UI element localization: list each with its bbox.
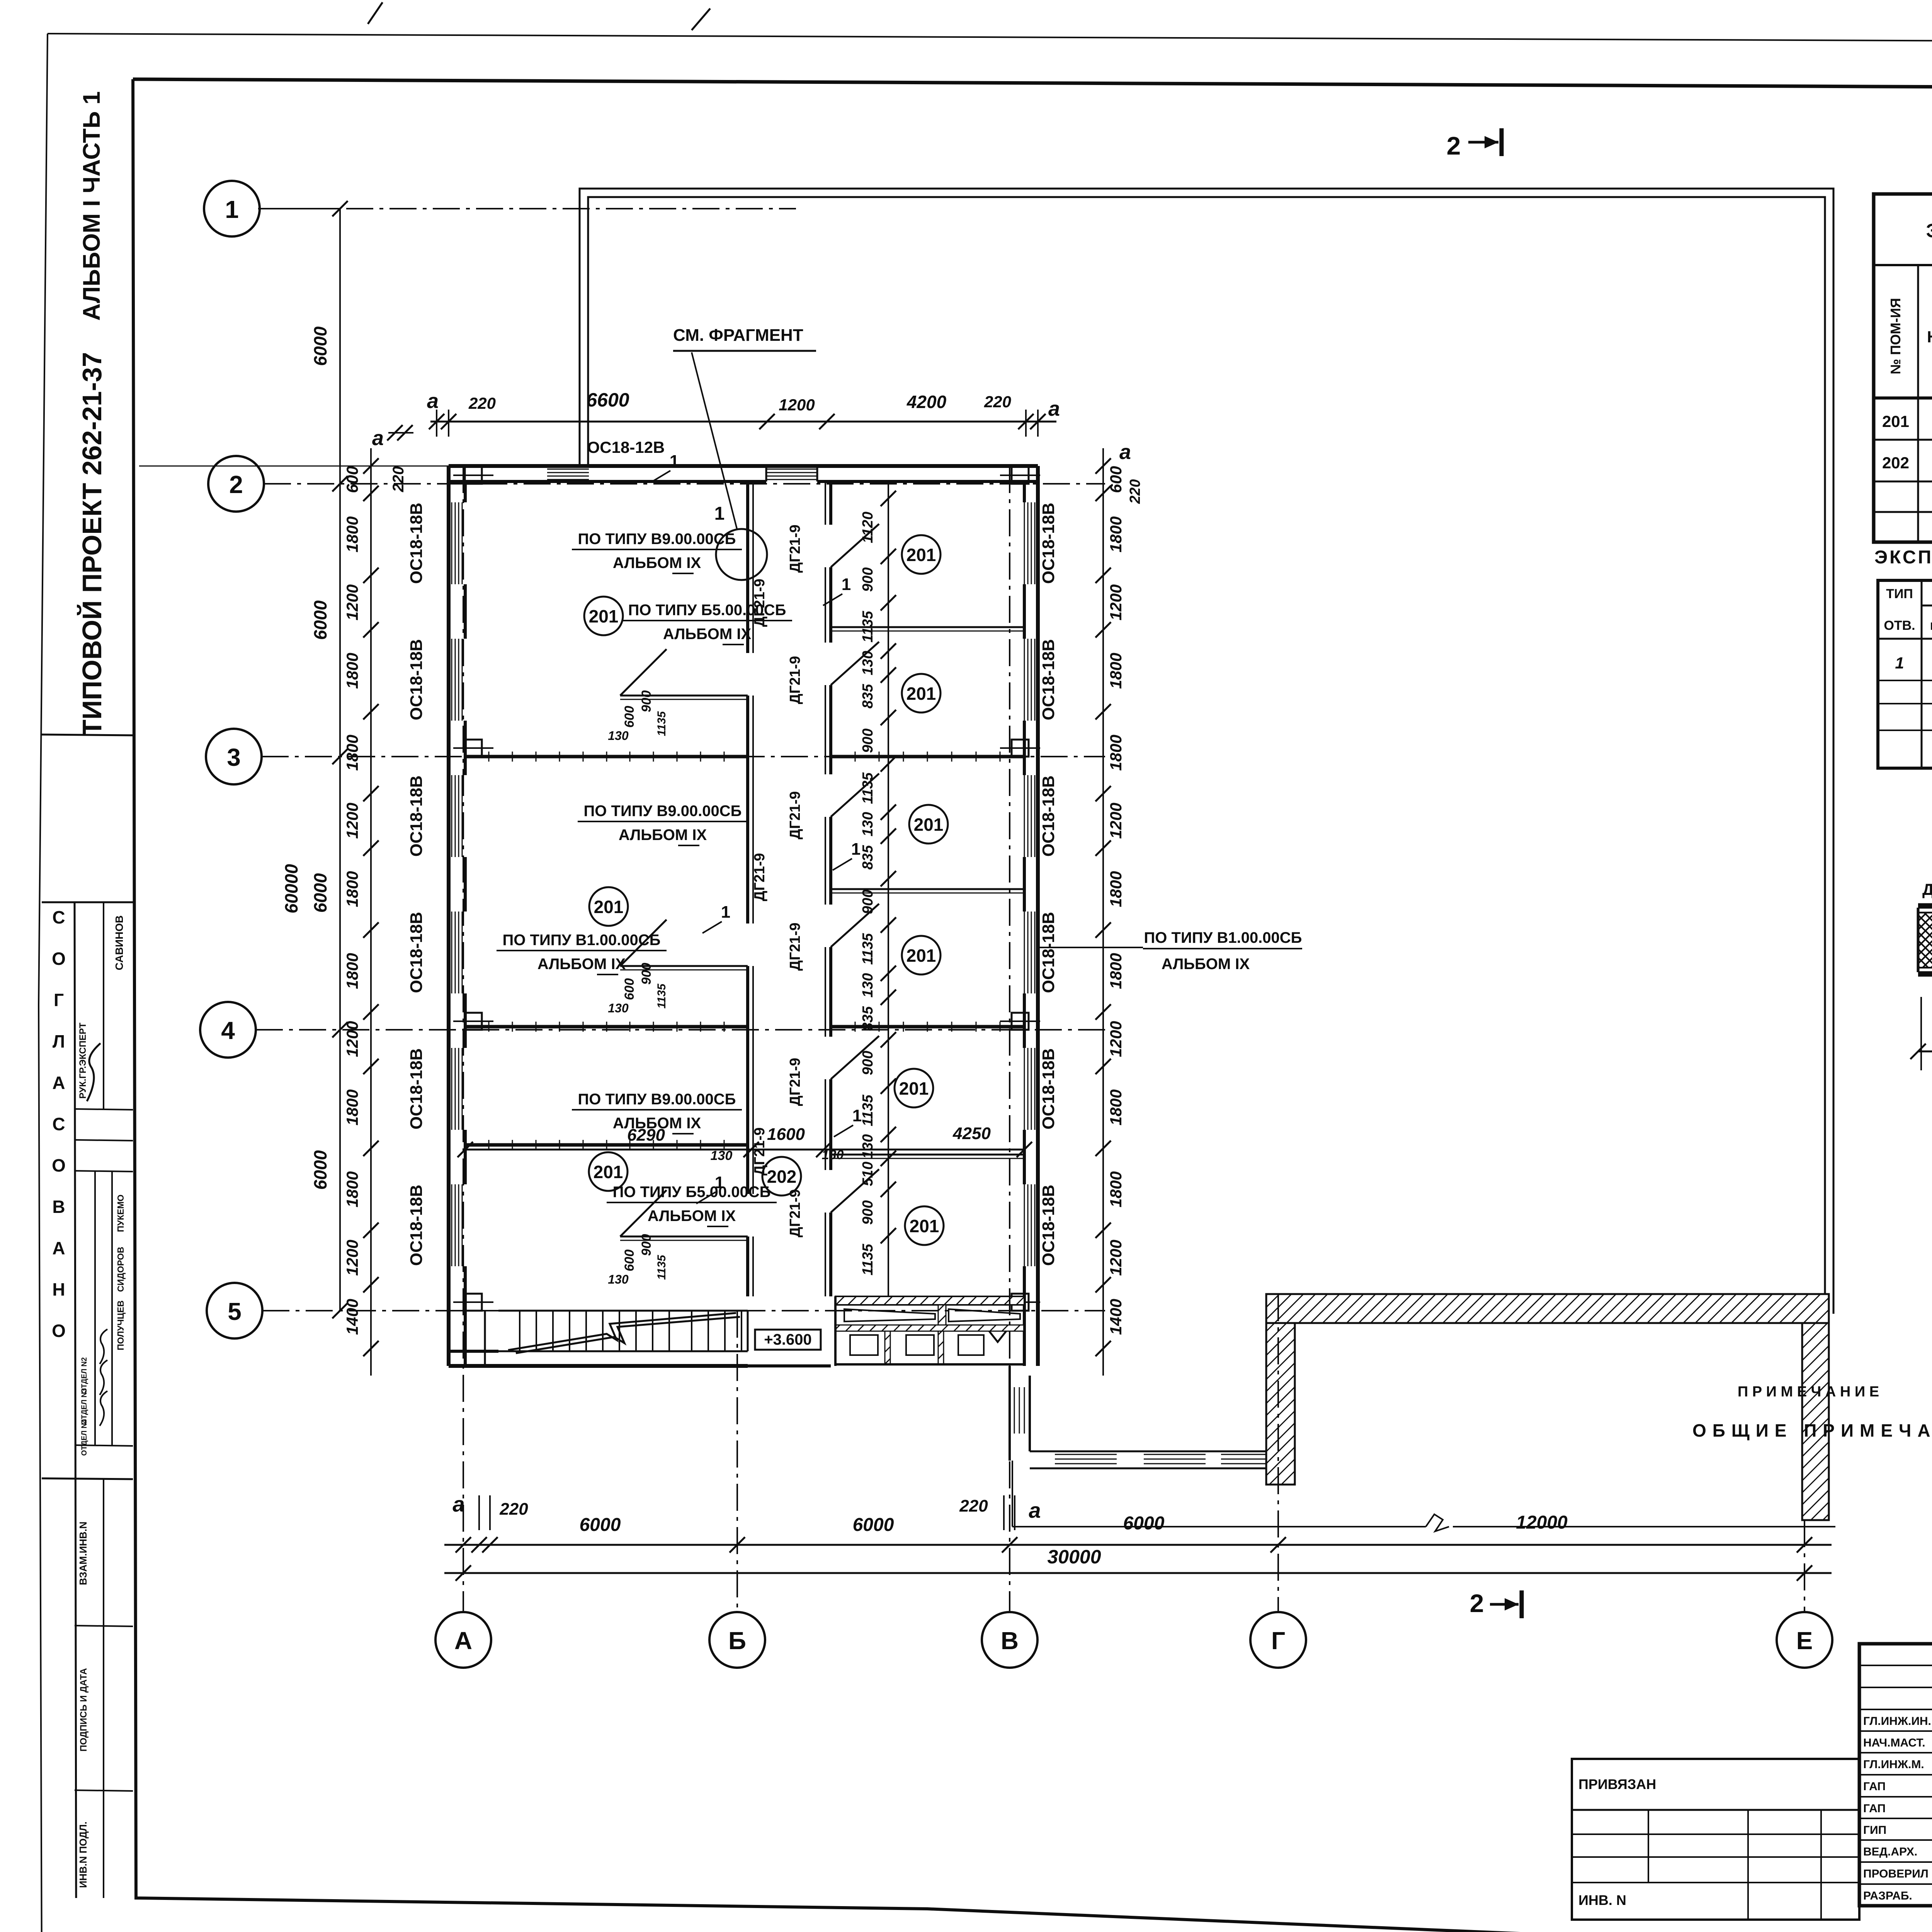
svg-text:130: 130 <box>711 1148 733 1163</box>
room 201 <box>895 1069 933 1107</box>
wing wall B-Г with windows <box>1030 1451 1282 1452</box>
svg-text:1200: 1200 <box>343 803 361 838</box>
svg-text:202: 202 <box>767 1167 797 1187</box>
svg-text:202: 202 <box>1882 454 1909 472</box>
svg-text:201: 201 <box>906 545 936 565</box>
svg-text:201: 201 <box>1882 412 1909 430</box>
axis circle 5 <box>207 1283 262 1338</box>
svg-text:ПРОВЕРИЛ: ПРОВЕРИЛ <box>1863 1867 1929 1880</box>
svg-text:ДГ21-9: ДГ21-9 <box>787 923 803 971</box>
svg-text:ПРИВЯЗАН: ПРИВЯЗАН <box>1578 1776 1656 1792</box>
sidebar approval table <box>42 901 133 903</box>
svg-text:НАЧ.МАСТ.: НАЧ.МАСТ. <box>1863 1736 1925 1749</box>
svg-text:1: 1 <box>670 452 679 471</box>
svg-text:О: О <box>52 1321 66 1341</box>
svg-text:ОС18-18В: ОС18-18В <box>407 639 426 720</box>
svg-text:1: 1 <box>225 196 239 223</box>
svg-text:130: 130 <box>860 812 876 836</box>
svg-text:О: О <box>52 1155 66 1175</box>
room 201 <box>589 1152 628 1191</box>
svg-text:ПОЛУЧЦЕВ: ПОЛУЧЦЕВ <box>116 1300 126 1350</box>
svg-text:ОС18-18В: ОС18-18В <box>407 776 426 857</box>
svg-text:ИНВ.N ПОДЛ.: ИНВ.N ПОДЛ. <box>77 1821 89 1888</box>
svg-text:1400: 1400 <box>1107 1299 1125 1335</box>
axis circle 2 <box>208 456 264 512</box>
svg-text:ДГ21-9: ДГ21-9 <box>787 791 803 840</box>
svg-text:Е: Е <box>1796 1627 1813 1655</box>
room 201 <box>902 535 940 574</box>
svg-text:4250: 4250 <box>952 1124 991 1143</box>
axis circle Г <box>1250 1612 1306 1668</box>
svg-text:835: 835 <box>860 684 876 708</box>
svg-text:ДГ21-9: ДГ21-9 <box>787 656 803 704</box>
outer wall: top <box>449 464 1038 468</box>
svg-text:ПО ТИПУ Б5.00.00СБ: ПО ТИПУ Б5.00.00СБ <box>613 1184 771 1201</box>
svg-text:1135: 1135 <box>860 1094 876 1126</box>
svg-text:ОС18-18В: ОС18-18В <box>1039 1048 1058 1129</box>
svg-text:ДГ21-9: ДГ21-9 <box>787 1058 803 1106</box>
room 201 <box>909 805 948 844</box>
svg-text:1: 1 <box>1895 654 1904 672</box>
sidebar lower block <box>42 1478 133 1479</box>
svg-text:ПО ТИПУ В9.00.00СБ: ПО ТИПУ В9.00.00СБ <box>578 531 736 548</box>
room 202 <box>762 1157 801 1196</box>
svg-text:ЭКСПЛИКАЦИЯ ПОМЕЩЕНИЙ И ИХ: ЭКСПЛИКАЦИЯ ПОМЕЩЕНИЙ И ИХ ОТДЕЛКА /НА О… <box>1926 219 1932 241</box>
svg-text:ПОДПИСЬ И ДАТА: ПОДПИСЬ И ДАТА <box>78 1668 89 1752</box>
svg-text:6000: 6000 <box>1123 1513 1165 1534</box>
svg-text:4: 4 <box>221 1017 235 1044</box>
svg-text:РУК.ГР.ЭКСПЕРТ: РУК.ГР.ЭКСПЕРТ <box>78 1022 88 1099</box>
svg-text:С: С <box>52 907 65 927</box>
svg-text:2: 2 <box>229 471 243 498</box>
svg-text:1135: 1135 <box>655 983 668 1009</box>
corridor walls <box>746 481 749 653</box>
svg-text:600: 600 <box>343 466 361 493</box>
interior wall on axis 4 <box>465 1025 748 1029</box>
svg-text:1120: 1120 <box>860 512 876 543</box>
svg-text:4200: 4200 <box>906 392 947 412</box>
svg-text:ОС18-18В: ОС18-18В <box>407 912 426 993</box>
sanitary block <box>835 1296 1024 1305</box>
axis circle Б <box>709 1612 765 1668</box>
svg-text:130: 130 <box>860 651 876 675</box>
svg-text:ПО ТИПУ В1.00.00СБ: ПО ТИПУ В1.00.00СБ <box>503 932 661 949</box>
svg-text:1800: 1800 <box>1107 516 1125 552</box>
room 201 <box>902 674 940 713</box>
svg-text:ДГ21-9: ДГ21-9 <box>787 1189 803 1238</box>
room 201 <box>905 1206 944 1245</box>
svg-text:6290: 6290 <box>627 1126 665 1145</box>
svg-text:900: 900 <box>860 1051 876 1075</box>
svg-text:3: 3 <box>227 743 241 771</box>
svg-text:1200: 1200 <box>779 396 815 414</box>
svg-text:ИНВ. N: ИНВ. N <box>1578 1892 1626 1908</box>
svg-text:1200: 1200 <box>1107 1021 1125 1057</box>
svg-text:130: 130 <box>608 1272 629 1286</box>
svg-text:201: 201 <box>914 815 944 835</box>
svg-text:a: a <box>427 389 439 413</box>
svg-text:ОС18-18В: ОС18-18В <box>1039 1185 1058 1266</box>
adjacent block outline (thin double rectangle) <box>580 189 1833 1314</box>
svg-text:ОС18-18В: ОС18-18В <box>1039 776 1058 857</box>
right type label with leader <box>1038 947 1143 948</box>
svg-text:+3.600: +3.600 <box>764 1331 811 1348</box>
svg-text:1135: 1135 <box>655 1254 668 1280</box>
svg-text:ТИПОВОЙ ПРОЕКТ 262-21-37: ТИПОВОЙ ПРОЕКТ 262-21-37 <box>77 352 107 736</box>
svg-text:510: 510 <box>860 1162 876 1186</box>
window ОС18-12В in top wall <box>547 469 589 470</box>
svg-text:ВЗАМ.ИНВ.N: ВЗАМ.ИНВ.N <box>77 1522 89 1585</box>
svg-text:ОС18-18В: ОС18-18В <box>407 503 426 584</box>
svg-text:1200: 1200 <box>343 1240 361 1276</box>
svg-text:1800: 1800 <box>1107 953 1125 989</box>
svg-text:1: 1 <box>714 503 725 524</box>
svg-text:12000: 12000 <box>1516 1512 1568 1533</box>
svg-text:220: 220 <box>984 393 1011 411</box>
svg-text:1135: 1135 <box>860 1243 876 1276</box>
svg-text:1600: 1600 <box>767 1125 805 1144</box>
drawing frame <box>133 79 1932 90</box>
svg-text:220: 220 <box>390 466 407 493</box>
svg-text:Г: Г <box>1271 1627 1285 1655</box>
svg-text:220: 220 <box>1127 479 1143 504</box>
svg-text:ГИП: ГИП <box>1863 1824 1886 1837</box>
svg-text:900: 900 <box>860 567 876 592</box>
stairs <box>484 1311 486 1366</box>
привязан table <box>1572 1759 1859 1920</box>
svg-text:6600: 6600 <box>586 389 629 411</box>
axis circle 4 <box>200 1002 256 1058</box>
svg-text:АЛЬБОМ IX: АЛЬБОМ IX <box>648 1207 736 1225</box>
svg-text:6000: 6000 <box>853 1515 894 1535</box>
svg-text:60000: 60000 <box>281 864 301 913</box>
svg-text:ГЛ.ИНЖ.ИН.: ГЛ.ИНЖ.ИН. <box>1863 1715 1931 1728</box>
svg-text:130: 130 <box>860 1134 876 1158</box>
interior wall room 201/202 bottom left <box>465 1143 748 1147</box>
svg-text:1800: 1800 <box>343 653 361 689</box>
svg-text:201: 201 <box>589 606 619 626</box>
svg-text:ДГ21-9: ДГ21-9 <box>787 525 803 573</box>
svg-text:ШИРИНА: ШИРИНА <box>1930 620 1932 632</box>
svg-text:1: 1 <box>851 840 861 859</box>
svg-text:6000: 6000 <box>310 326 330 366</box>
svg-text:1800: 1800 <box>343 1171 361 1207</box>
svg-text:220: 220 <box>959 1497 988 1515</box>
wall below B axis to wing <box>1009 1366 1011 1461</box>
svg-text:1800: 1800 <box>343 735 361 770</box>
sidebar divider <box>42 735 133 735</box>
svg-text:С: С <box>52 1114 65 1134</box>
svg-text:201: 201 <box>594 1162 623 1182</box>
svg-text:Б: Б <box>728 1627 746 1655</box>
svg-text:П Р И М Е Ч А Н И Е: П Р И М Е Ч А Н И Е <box>1738 1384 1879 1400</box>
svg-text:1200: 1200 <box>343 584 361 620</box>
svg-text:1200: 1200 <box>343 1021 361 1057</box>
svg-text:ДГ21-9: ДГ21-9 <box>752 1128 768 1176</box>
svg-text:1200: 1200 <box>1107 803 1125 838</box>
svg-text:900: 900 <box>860 1200 876 1225</box>
svg-text:Н: Н <box>52 1279 65 1299</box>
svg-text:201: 201 <box>906 684 936 704</box>
svg-text:ЭКСПЛИКАЦИЯ ОТВЕРСТИЙ; НИШ И Ш: ЭКСПЛИКАЦИЯ ОТВЕРСТИЙ; НИШ И ШТРАБ <box>1874 546 1932 568</box>
axis circle В <box>982 1612 1037 1668</box>
svg-text:ДЛЯ ОТВЕРСТИЙ ТИП 1 ;3: ДЛЯ ОТВЕРСТИЙ ТИП 1 ;3 <box>1922 880 1932 898</box>
svg-text:ПО ТИПУ В9.00.00СБ: ПО ТИПУ В9.00.00СБ <box>584 803 742 820</box>
left outer dim chain 6000s <box>339 209 341 1311</box>
partitions between small rooms <box>831 626 1024 628</box>
svg-text:А: А <box>454 1627 472 1655</box>
svg-text:1135: 1135 <box>860 611 876 643</box>
svg-text:ДГ21-9: ДГ21-9 <box>752 853 768 901</box>
svg-text:130: 130 <box>822 1148 844 1162</box>
svg-text:220: 220 <box>468 394 496 412</box>
svg-text:ГЛ.ИНЖ.М.: ГЛ.ИНЖ.М. <box>1863 1758 1924 1771</box>
svg-text:СИДОРОВ: СИДОРОВ <box>116 1247 126 1292</box>
svg-text:РАЗРАБ.: РАЗРАБ. <box>1863 1889 1912 1902</box>
svg-text:1400: 1400 <box>343 1299 361 1335</box>
svg-text:220: 220 <box>499 1500 528 1519</box>
room schedule table <box>1874 194 1932 542</box>
svg-text:900: 900 <box>639 690 654 713</box>
svg-text:2: 2 <box>1470 1589 1484 1617</box>
svg-text:a: a <box>1048 397 1060 420</box>
svg-text:130: 130 <box>608 729 629 743</box>
bottom dimension row 1 <box>444 1544 1832 1546</box>
outer wall: left with windows <box>447 466 451 1366</box>
hand slashes on top border <box>368 2 383 24</box>
svg-text:1: 1 <box>852 1106 862 1125</box>
room 201 <box>902 936 940 975</box>
interior wall on axis 3 <box>465 755 748 759</box>
svg-text:АЛЬБОМ IX: АЛЬБОМ IX <box>537 956 626 973</box>
svg-text:ВЕД.АРХ.: ВЕД.АРХ. <box>1863 1845 1917 1858</box>
svg-text:НАИМЕНОВАНИЕ: НАИМЕНОВАНИЕ <box>1927 328 1932 346</box>
svg-text:130: 130 <box>860 973 876 997</box>
title block <box>1859 1644 1932 1906</box>
wing bottom line with break <box>1012 1461 1013 1527</box>
top dim line <box>430 421 1056 423</box>
svg-text:О: О <box>52 949 66 969</box>
svg-text:ГАП: ГАП <box>1863 1780 1886 1793</box>
svg-text:1800: 1800 <box>1107 735 1125 770</box>
svg-text:АЛЬБОМ IX: АЛЬБОМ IX <box>663 626 752 643</box>
svg-text:№ ПОМ-ИЯ: № ПОМ-ИЯ <box>1888 298 1903 374</box>
svg-text:ТИП: ТИП <box>1886 587 1913 601</box>
corridor dim chain <box>888 481 889 1296</box>
svg-text:900: 900 <box>639 963 654 985</box>
right fine dim chain <box>1102 448 1104 1376</box>
svg-text:900: 900 <box>860 728 876 753</box>
svg-text:900: 900 <box>639 1234 654 1256</box>
paper border <box>48 34 1932 44</box>
axis circle Е <box>1777 1612 1832 1668</box>
svg-text:600: 600 <box>622 706 637 728</box>
svg-text:ПУКЕМО: ПУКЕМО <box>116 1194 126 1232</box>
room 201 <box>589 887 628 926</box>
axis circle А <box>435 1612 491 1668</box>
svg-text:АЛЬБОМ IX: АЛЬБОМ IX <box>613 554 701 571</box>
axis column anchors <box>465 467 482 484</box>
svg-text:ОС18-18В: ОС18-18В <box>1039 503 1058 584</box>
svg-text:ОТДЕЛ N4: ОТДЕЛ N4 <box>80 1419 88 1456</box>
room 201 <box>584 597 623 635</box>
svg-text:ГАП: ГАП <box>1863 1802 1886 1815</box>
svg-text:201: 201 <box>594 897 624 917</box>
level mark +3.600 <box>755 1330 821 1350</box>
svg-text:201: 201 <box>910 1216 939 1236</box>
svg-text:АЛЬБОМ IX: АЛЬБОМ IX <box>1162 956 1250 973</box>
hatched walls of adjacent wing <box>1266 1294 1829 1323</box>
svg-text:1800: 1800 <box>1107 1171 1125 1207</box>
svg-text:1: 1 <box>715 1173 724 1192</box>
svg-text:1: 1 <box>721 903 730 922</box>
svg-text:А: А <box>52 1073 65 1093</box>
svg-text:30000: 30000 <box>1047 1546 1101 1568</box>
dim line 6290/1600/4250 <box>465 1149 1024 1151</box>
svg-text:ПО ТИПУ В1.00.00СБ: ПО ТИПУ В1.00.00СБ <box>1144 929 1302 946</box>
left fine dim chain <box>370 448 372 1376</box>
svg-text:АЛЬБОМ IX: АЛЬБОМ IX <box>619 827 707 844</box>
svg-text:835: 835 <box>860 845 876 869</box>
svg-text:1800: 1800 <box>1107 871 1125 907</box>
svg-text:Г: Г <box>54 990 64 1010</box>
svg-text:1200: 1200 <box>1107 584 1125 620</box>
svg-text:600: 600 <box>622 978 637 1000</box>
svg-text:a: a <box>1029 1498 1041 1522</box>
svg-text:a: a <box>372 427 384 450</box>
svg-text:201: 201 <box>899 1078 929 1099</box>
bottom dimension row 2 (30000) <box>444 1572 1832 1574</box>
svg-text:ОС18-18В: ОС18-18В <box>1039 912 1058 993</box>
svg-text:600: 600 <box>622 1250 637 1272</box>
svg-text:1800: 1800 <box>343 953 361 989</box>
svg-text:1800: 1800 <box>1107 1089 1125 1125</box>
svg-text:130: 130 <box>608 1001 629 1015</box>
svg-text:2: 2 <box>1447 131 1461 160</box>
svg-text:835: 835 <box>860 1006 876 1031</box>
svg-text:ПО ТИПУ Б5.00.00СБ: ПО ТИПУ Б5.00.00СБ <box>628 602 786 619</box>
svg-text:ОС18-18В: ОС18-18В <box>407 1185 426 1266</box>
svg-text:201: 201 <box>906 946 936 966</box>
svg-text:1135: 1135 <box>655 711 668 736</box>
svg-text:САВИНОВ: САВИНОВ <box>113 915 125 970</box>
svg-text:ОБЩИЕ ПРИМЕЧАНИЯ СМ. НА ЧЕ: ОБЩИЕ ПРИМЕЧАНИЯ СМ. НА ЧЕРТ. „АСО-7" <box>1692 1420 1932 1440</box>
svg-text:1800: 1800 <box>343 516 361 552</box>
svg-text:1800: 1800 <box>343 1089 361 1125</box>
svg-text:a: a <box>1119 440 1131 464</box>
outer wall: bottom <box>449 1364 748 1368</box>
svg-text:6000: 6000 <box>310 600 330 640</box>
svg-text:6000: 6000 <box>310 873 330 913</box>
svg-text:1: 1 <box>842 575 851 594</box>
axis circle 1 <box>204 181 260 236</box>
svg-text:ОС18-18В: ОС18-18В <box>1039 639 1058 720</box>
svg-text:6000: 6000 <box>310 1150 330 1190</box>
svg-text:1200: 1200 <box>1107 1240 1125 1276</box>
svg-text:1800: 1800 <box>1107 653 1125 689</box>
svg-text:6000: 6000 <box>580 1515 621 1535</box>
svg-text:ОТВ.: ОТВ. <box>1884 618 1915 633</box>
svg-text:1135: 1135 <box>860 772 876 804</box>
outer wall: right with windows <box>1036 466 1040 1366</box>
svg-text:ОС18-12В: ОС18-12В <box>587 438 665 456</box>
svg-text:СМ. ФРАГМЕНТ: СМ. ФРАГМЕНТ <box>673 326 803 345</box>
svg-text:ОС18-18В: ОС18-18В <box>407 1048 426 1129</box>
svg-text:Л: Л <box>53 1031 65 1051</box>
svg-text:АЛЬБОМ I ЧАСТЬ 1: АЛЬБОМ I ЧАСТЬ 1 <box>78 91 105 321</box>
svg-text:600: 600 <box>1107 466 1125 493</box>
svg-text:ПО ТИПУ В9.00.00СБ: ПО ТИПУ В9.00.00СБ <box>578 1091 736 1108</box>
svg-text:В: В <box>52 1197 65 1217</box>
svg-text:А: А <box>52 1238 65 1258</box>
svg-text:a: a <box>452 1492 464 1516</box>
svg-text:900: 900 <box>860 889 876 914</box>
construction line to frame <box>139 466 449 467</box>
svg-text:В: В <box>1001 1627 1019 1655</box>
sidebar cells <box>103 902 104 1109</box>
svg-text:1800: 1800 <box>343 871 361 907</box>
svg-text:1135: 1135 <box>860 933 876 965</box>
svg-text:5: 5 <box>228 1298 241 1325</box>
axis circle 3 <box>206 729 262 784</box>
fragment detail 1 <box>1918 903 1932 907</box>
